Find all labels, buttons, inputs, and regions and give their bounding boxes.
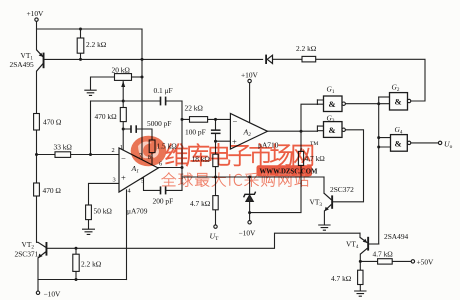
junction 2.2k top VT2 (75, 247, 78, 250)
watermark slogan text (162, 172, 309, 186)
wire riser A1 output node (181, 101, 183, 190)
svg-text:+50V: +50V (417, 258, 435, 267)
transistor VT2 2SC371 (37, 242, 48, 258)
svg-text:5: 5 (141, 178, 144, 185)
svg-text:20 kΩ: 20 kΩ (112, 66, 131, 75)
wire 22k to A2 inverting input (182, 118, 230, 120)
svg-text:2.2 kΩ: 2.2 kΩ (86, 40, 107, 49)
potentiometer 20k (115, 74, 132, 87)
wire A1 pin 4 to -10V rail (126, 190, 128, 280)
wire 20k pot right to riser (132, 76, 142, 78)
pin 5 (141, 178, 144, 185)
svg-text:2SA495: 2SA495 (10, 60, 35, 69)
svg-text:2.2 kΩ: 2.2 kΩ (81, 260, 102, 269)
ground 50k (82, 229, 95, 234)
junction zener top (248, 176, 251, 179)
capacitor 200pF (160, 186, 167, 194)
op-amp A2 uA710 (230, 114, 267, 150)
junction wiper node (122, 100, 125, 103)
wire top rail +10V to pin7 riser (37, 28, 143, 30)
transistor VT3 2SC372 (324, 193, 333, 211)
svg-text:50 kΩ: 50 kΩ (94, 207, 113, 216)
junction G4 upper (377, 136, 380, 139)
terminal -10V bottom-left (36, 291, 39, 294)
junction 2.2k top (79, 28, 82, 31)
wire A2 noninverting input (216, 140, 231, 142)
svg-text:&: & (329, 125, 336, 135)
wire G4 inputs (379, 138, 391, 147)
svg-text:−: − (121, 154, 126, 164)
svg-text:33 kΩ: 33 kΩ (54, 143, 73, 152)
wire feedback diode to 2.2k to G2 output (272, 59, 425, 101)
gate G4 (391, 135, 411, 152)
svg-text:+10V: +10V (241, 71, 259, 80)
svg-text:TM: TM (310, 141, 318, 147)
svg-text:&: & (329, 99, 336, 109)
ground VT4 (354, 291, 366, 296)
wire riser to A1 pin 7 (141, 29, 143, 161)
wire A2 output pulldown chain (250, 131, 301, 212)
svg-text:&: & (395, 97, 402, 107)
wire VT4 emitter corner (359, 233, 361, 237)
wire VT2 emitter to -10V (37, 258, 39, 291)
wire VT3 emitter to ground (323, 211, 325, 225)
gate G1 (324, 96, 346, 112)
svg-text:4.7 kΩ: 4.7 kΩ (190, 199, 211, 208)
wire G3 output to VT3 base (333, 130, 363, 202)
junction reference rail 18k (214, 176, 217, 179)
wire reference rail y177 (182, 176, 324, 178)
wire pot wiper to 470k to pin 1 (122, 82, 124, 151)
wire VT3 collector drop (323, 177, 325, 193)
wire VT4 collector node (360, 254, 411, 291)
resistor 470 upper (34, 114, 40, 131)
wire G1 input tie (317, 100, 323, 105)
transistor VT4 2SA494 (360, 237, 369, 254)
junction 2.2k bottom on base line (79, 58, 82, 61)
wire A1 pin 3 to 50k to ground (89, 183, 120, 228)
diode feedback (cathode left) (265, 55, 272, 64)
pin 2 (112, 147, 115, 154)
terminal +10V top-left (35, 18, 38, 21)
resistor 22k (190, 117, 208, 123)
wire left rail VT1 collector to VT2 collector (36, 71, 38, 242)
wire zener leads (249, 177, 251, 221)
zener diode (244, 192, 256, 202)
pin 1 (120, 144, 123, 151)
svg-text:2: 2 (112, 147, 115, 154)
pin 7 (139, 153, 143, 160)
svg-text:4.7 kΩ: 4.7 kΩ (331, 274, 352, 283)
svg-text:−: − (233, 116, 238, 126)
wire 2.2k VT2 leads (75, 248, 77, 279)
resistor 4.7k to UT (213, 196, 218, 210)
terminal +10V A2 (248, 79, 251, 82)
wire branch to G1 (301, 104, 317, 131)
terminal UT (214, 225, 217, 228)
junction G1 out riser (377, 102, 380, 105)
svg-text:2SC371: 2SC371 (15, 250, 39, 259)
wire G2 upper input (379, 96, 390, 98)
gate G3 (324, 122, 346, 138)
wire G3 input tie (317, 126, 323, 131)
watermark logo disc (131, 136, 167, 167)
svg-text:2SA494: 2SA494 (384, 232, 409, 241)
ground 20k (84, 90, 96, 95)
pin 4 (128, 188, 132, 195)
wire riser G2/G4 inputs to VT4 base (378, 97, 380, 244)
wire A2 +10V lead (249, 83, 251, 123)
svg-text:200 pF: 200 pF (153, 197, 174, 206)
wire 1.5k to pin 8 (151, 153, 153, 166)
gate G2 (390, 93, 411, 110)
junction 22k right (214, 118, 217, 121)
svg-text:1: 1 (120, 144, 123, 151)
wire VT1 base line to diode (45, 58, 263, 60)
junction pin2 riser (89, 153, 92, 156)
wire G4 output to Uo (411, 142, 439, 144)
svg-text:2SC372: 2SC372 (330, 185, 354, 194)
junction noninverting tap (214, 140, 217, 143)
svg-text:μA709: μA709 (127, 207, 148, 216)
svg-text:22 kΩ: 22 kΩ (185, 104, 204, 113)
svg-text:2.2 kΩ: 2.2 kΩ (296, 44, 317, 53)
wire pin 5 to 200pF loop (144, 178, 183, 191)
junction output pin6 (181, 166, 184, 169)
junction 2.2k bottom VT2 (75, 278, 78, 281)
svg-text:0.1 μF: 0.1 μF (154, 86, 173, 95)
svg-text:470 Ω: 470 Ω (43, 118, 62, 127)
wire 5000pF to 1.5k (123, 129, 152, 140)
svg-text:&: & (395, 139, 402, 149)
resistor 2.2k feedback (302, 56, 316, 62)
junction A2 out (300, 130, 303, 133)
svg-text:470 kΩ: 470 kΩ (95, 112, 118, 121)
wire 0.1uF line (91, 100, 183, 102)
svg-text:+: + (232, 137, 237, 147)
terminal -10V A2 (248, 221, 251, 224)
wire VT4 base lead (369, 243, 379, 245)
wire A2 output (268, 130, 318, 132)
resistor 4.7k pulldown (298, 151, 303, 165)
pin 6 (159, 161, 162, 168)
op-amp A1 uA709 (119, 148, 158, 192)
junction zener bottom (248, 211, 251, 214)
junction G4 lower (377, 146, 380, 149)
pin 8 (148, 154, 151, 161)
capacitor 100pF (211, 129, 221, 134)
wire 20k pot left to ground (91, 77, 115, 90)
resistor 4.7k to +50V (378, 259, 393, 264)
svg-text:−10V: −10V (239, 229, 257, 238)
resistor 470k (120, 108, 126, 122)
svg-text:100 pF: 100 pF (185, 128, 206, 137)
ground VT3 (318, 225, 330, 230)
watermark dzsc pill (257, 165, 318, 176)
resistor 2.2k at VT2 base (73, 254, 79, 271)
svg-text:3: 3 (113, 177, 116, 184)
resistor 18k (213, 154, 218, 166)
wire A1 output pin 6 (158, 167, 182, 169)
resistor 4.7k VT4 emitter (358, 270, 363, 284)
svg-text:−10V: −10V (44, 290, 62, 299)
watermark main text (166, 144, 313, 166)
junction 33k left (35, 153, 38, 156)
svg-text:+: + (121, 173, 126, 183)
wire +10V feed to VT1 emitter (36, 21, 38, 49)
pin 3 (113, 177, 116, 184)
wire 100pF 18k chain (215, 119, 217, 224)
wire VT2 base to VT4 emitter (47, 233, 360, 248)
capacitor 5000pF (130, 125, 137, 133)
terminal Uo (438, 141, 441, 144)
wire G1 output to G2 input (345, 103, 389, 105)
junction pot right (141, 76, 144, 79)
svg-text:+10V: +10V (27, 9, 45, 18)
resistor 2.2k at VT1 base (77, 38, 84, 53)
junction VT4 collector (359, 260, 362, 263)
wire 2.2k VT1 leads (80, 29, 82, 59)
svg-text:4.7 kΩ: 4.7 kΩ (373, 250, 394, 259)
junction 5000pF tap (122, 128, 125, 131)
junction riser on base line (141, 58, 144, 61)
junction output riser top (181, 118, 184, 121)
wire riser pin2 node to 0.1uF line (90, 101, 92, 155)
svg-text:470 Ω: 470 Ω (43, 186, 62, 195)
wire 33k to A1 pin 2 (37, 154, 120, 156)
svg-text:5000 pF: 5000 pF (147, 119, 171, 128)
resistor 1.5k (149, 140, 155, 153)
resistor 470 lower (34, 183, 40, 196)
capacitor 0.1uF (160, 97, 167, 106)
transistor VT1 2SA495 (37, 50, 45, 72)
resistor 33k (55, 152, 71, 158)
terminal +50V (411, 260, 414, 263)
resistor 50k (86, 205, 92, 220)
wire -10V rail (38, 279, 127, 281)
svg-text:WWW.DZSC.COM: WWW.DZSC.COM (260, 169, 318, 176)
